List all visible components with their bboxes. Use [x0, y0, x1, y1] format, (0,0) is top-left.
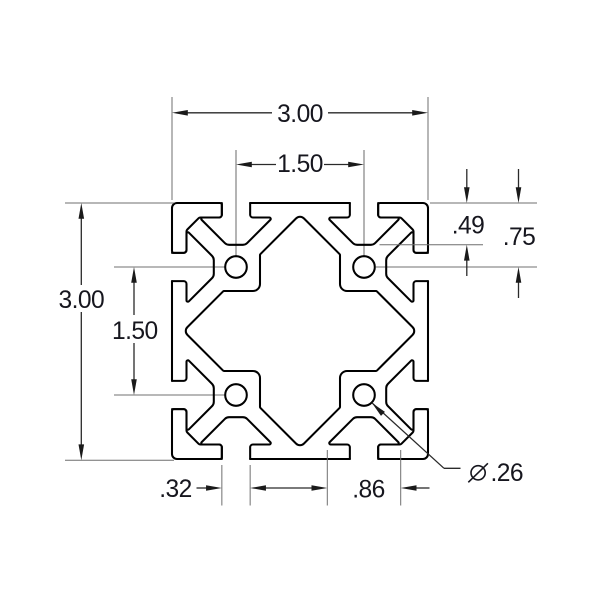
- T-slot left-bottom: [172, 360, 214, 429]
- T-slot right-bottom: [386, 360, 428, 429]
- dim 3.00 height: dimension line and arrows: [80, 216, 82, 285]
- hole top-left (dia .26): [225, 256, 247, 278]
- T-slot bottom-right: [329, 417, 398, 459]
- face segment right: [427, 281, 429, 381]
- hole top-right (dia .26): [353, 256, 375, 278]
- face segment left: [171, 281, 173, 381]
- svg-text:.75: .75: [503, 224, 536, 251]
- dim 1.50 slot spacing horizontal: [249, 164, 276, 166]
- dim 3.00 width: extension lines: [171, 97, 173, 200]
- svg-text:.49: .49: [452, 212, 485, 239]
- face segment bottom: [250, 458, 350, 460]
- T-slot bottom-left: [201, 417, 270, 459]
- T-slot top-left: [201, 203, 270, 245]
- centerline vertical top-right hole: [363, 150, 365, 256]
- centerline horizontal lower-left hole: [114, 394, 225, 396]
- corner block top-left: [172, 203, 222, 253]
- svg-text:3.00: 3.00: [58, 287, 104, 314]
- central star cavity: [186, 217, 414, 445]
- dim .86: right arrow: [414, 487, 430, 489]
- svg-text:.32: .32: [159, 476, 192, 503]
- dim .32 slot opening: extension lines: [221, 465, 223, 506]
- T-slot left-top: [172, 232, 214, 301]
- dim .49 slot depth: extension lines: [430, 202, 537, 204]
- dim 3.00 height: extension lines: [65, 202, 174, 204]
- hole bottom-left (dia .26): [225, 384, 247, 406]
- corner block bottom-right: [378, 409, 428, 459]
- diameter symbol: [468, 463, 488, 482]
- face segment top: [250, 202, 350, 204]
- dim .75 hole offset: arrows outside: [518, 169, 520, 190]
- svg-text:1.50: 1.50: [112, 318, 158, 345]
- centerline horizontal upper-left hole: [114, 266, 225, 268]
- svg-text:3.00: 3.00: [277, 101, 323, 128]
- svg-text:.26: .26: [491, 460, 524, 487]
- T-slot top-right: [329, 203, 398, 245]
- corner block bottom-left: [172, 409, 222, 459]
- dim .32: arrow and shared segment: [197, 487, 210, 489]
- T-slot right-top: [386, 232, 428, 301]
- dim .49: arrows outside: [466, 169, 468, 190]
- dim .86 cavity width: extension lines: [326, 450, 328, 506]
- dim 1.50 hole spacing vertical: [133, 280, 135, 315]
- corner block top-right: [378, 203, 428, 253]
- centerline vertical top-left hole: [235, 150, 237, 256]
- svg-text:1.50: 1.50: [277, 151, 323, 178]
- dim 3.00 width: dimension line and arrows: [187, 112, 272, 114]
- hole bottom-right (dia .26): [353, 384, 375, 406]
- centerline horizontal right hole for .75: [376, 266, 537, 268]
- svg-text:.86: .86: [352, 477, 385, 504]
- leader line for hole diameter .26: [372, 403, 444, 469]
